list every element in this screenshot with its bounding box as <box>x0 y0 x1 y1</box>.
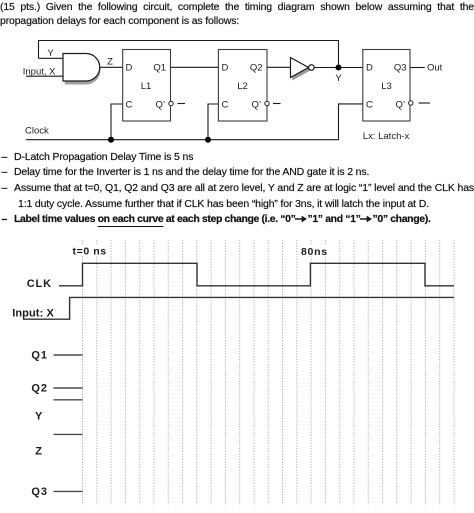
waveform Q1 initial stub <box>54 354 83 356</box>
svg-text:D: D <box>366 63 373 74</box>
waveform Input X <box>23 297 454 319</box>
L1 Q' bubble <box>169 101 173 105</box>
wire: Z from AND to L1 <box>100 66 123 68</box>
svg-text:t=0 ns: t=0 ns <box>73 246 107 258</box>
wire: X input <box>26 75 63 77</box>
junction dot L1 clock <box>108 137 114 143</box>
waveform Q2 initial stub <box>54 387 83 389</box>
svg-text:C: C <box>126 99 133 110</box>
timing grid <box>83 240 455 505</box>
label t=0 ns background <box>70 245 108 257</box>
svg-text:Q2: Q2 <box>250 63 263 74</box>
svg-text:Q3: Q3 <box>394 63 407 74</box>
and-gate shadow <box>66 56 100 84</box>
svg-text:Out: Out <box>427 63 443 74</box>
svg-text:D: D <box>126 63 133 74</box>
svg-text:Q’: Q’ <box>252 99 262 110</box>
label 80ns background <box>299 245 329 257</box>
svg-text:CLK: CLK <box>27 278 52 290</box>
inverter bubble <box>309 65 315 71</box>
wire: Q2 to inverter <box>267 66 291 68</box>
and-gate G1 <box>63 54 100 82</box>
svg-text:D: D <box>222 63 229 74</box>
waveform Z initial stub (high) <box>54 433 83 435</box>
svg-text:Q’: Q’ <box>396 99 406 110</box>
svg-text:Y: Y <box>47 48 54 59</box>
d-latch L3 box <box>363 50 410 122</box>
svg-text:C: C <box>366 99 373 110</box>
svg-text:80ns: 80ns <box>301 246 328 258</box>
svg-text:Z: Z <box>35 446 42 458</box>
svg-text:L2: L2 <box>237 81 248 92</box>
svg-text:Lx: Latch-x: Lx: Latch-x <box>363 131 410 142</box>
L3 Q' bubble <box>409 101 413 105</box>
svg-text:Q2: Q2 <box>31 383 47 395</box>
inverter U1 <box>291 58 309 78</box>
wire: L1 clock riser <box>111 104 123 140</box>
svg-text:Input, X: Input, X <box>23 67 56 78</box>
L2 Q' bubble <box>265 101 269 105</box>
inverter shadow <box>293 60 311 80</box>
svg-text:Clock: Clock <box>25 126 49 137</box>
svg-text:Input: X: Input: X <box>12 308 54 320</box>
waveform CLK <box>59 263 454 286</box>
wire: Q1 to L2 D <box>171 66 219 68</box>
L2 Q' stub <box>273 103 281 105</box>
wire: L3 clock riser <box>339 104 363 140</box>
wire: clock rail <box>26 139 339 141</box>
svg-text:L1: L1 <box>141 81 152 92</box>
wire: Y input to AND <box>39 57 64 59</box>
svg-text:L3: L3 <box>381 81 392 92</box>
wire: feedback Y top <box>39 41 339 68</box>
svg-text:Q1: Q1 <box>31 350 47 362</box>
svg-text:Q3: Q3 <box>31 486 47 498</box>
junction dot L2 clock <box>205 137 211 143</box>
wire: inverter out to L3 D <box>314 67 363 69</box>
svg-text:C: C <box>222 99 229 110</box>
waveform Y initial stub (high) <box>54 399 83 401</box>
L3 Q' stub <box>419 102 431 104</box>
wire: L2 clock riser <box>208 104 218 140</box>
d-latch L2 box <box>218 50 267 122</box>
svg-text:Y: Y <box>335 73 342 84</box>
waveform Q3 initial stub <box>54 490 83 492</box>
svg-text:Y: Y <box>35 411 43 423</box>
svg-text:Q’: Q’ <box>156 99 166 110</box>
L1 Q' stub <box>178 103 186 105</box>
svg-text:Q1: Q1 <box>153 63 166 74</box>
junction node Y <box>336 65 342 71</box>
wire: Q3 to Out <box>410 67 425 69</box>
svg-text:Z: Z <box>107 57 113 68</box>
d-latch L1 box <box>123 50 171 122</box>
document text <box>0 1 474 13</box>
